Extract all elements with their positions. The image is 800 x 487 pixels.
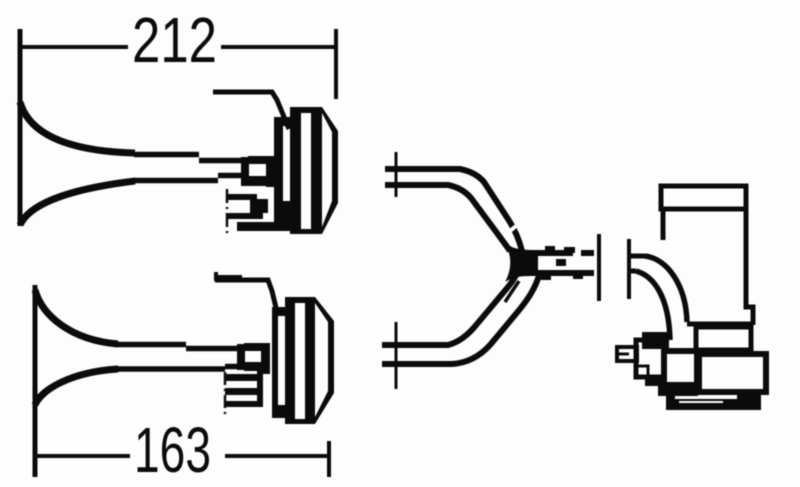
dimension 163 line left segment	[35, 454, 130, 458]
compressor cylinder left edge	[661, 209, 666, 240]
horn 2 throat adapter block	[237, 343, 270, 374]
horn 1 diaphragm housing front plate	[274, 117, 290, 230]
compressor elbow inner arc	[645, 256, 687, 322]
svg-text:212: 212	[132, 4, 217, 76]
hose upper branch sleeve break	[504, 226, 516, 236]
compressor elbow outer arc	[636, 271, 670, 340]
horn 2 diaphragm housing front plate	[272, 307, 286, 418]
compressor pump upper box	[696, 327, 751, 350]
dimension 212 extension line right	[334, 29, 338, 99]
compressor inlet flange line	[627, 239, 631, 299]
horn 2 air inlet nipple	[225, 370, 263, 407]
horn 1 bell bottom curve	[20, 181, 135, 225]
horn 1 mounting bracket	[213, 92, 289, 129]
dimension 163 line right segment	[225, 454, 329, 458]
horn 1 air inlet nipple	[227, 194, 295, 231]
compressor elbow stub bottom	[629, 269, 636, 274]
hose end flange line	[597, 234, 601, 301]
hose outlet clamp ticks	[541, 246, 583, 280]
dimension 163 extension line left / horn2 bell mouth edge	[33, 285, 38, 477]
hose upper branch top wall	[385, 169, 522, 251]
hose lower branch sleeve line	[505, 281, 519, 302]
compressor cylinder right edge	[746, 209, 753, 325]
horn 2 mounting bracket	[215, 272, 277, 312]
dimension 212 line left segment	[20, 45, 128, 49]
hose lower branch top wall	[382, 263, 521, 345]
horn 1 tube top edge	[134, 155, 243, 161]
dimension label 163	[134, 414, 211, 486]
compressor base plate	[666, 393, 761, 410]
horn 2 diaphragm disc	[285, 297, 315, 424]
horn 1 housing back shell	[322, 107, 338, 234]
hose lower branch cut tick	[395, 322, 398, 389]
horn 2 housing back shell	[315, 297, 334, 424]
hose outlet tube bottom wall	[530, 270, 594, 276]
dimension label 212	[132, 4, 217, 76]
hose upper branch bottom wall	[385, 185, 510, 251]
compressor elbow connector block	[664, 351, 697, 385]
dimension 212 extension line left / horn1 bell mouth edge	[18, 29, 23, 226]
hose outlet tube top wall	[530, 250, 594, 256]
compressor pump lower joint mass	[645, 377, 698, 396]
svg-text:163: 163	[134, 414, 211, 486]
dimension 163 extension line right	[327, 441, 331, 477]
horn 2 tube bottom edge	[115, 367, 239, 370]
compressor motor cap	[661, 186, 746, 209]
horn 2 bell bottom curve	[35, 369, 118, 405]
horn 1 bell top curve	[20, 102, 135, 153]
dimension 212 line right segment	[221, 45, 336, 49]
horn 1 throat adapter block	[241, 156, 275, 187]
horn 1 tube bottom edge	[134, 176, 243, 181]
hose lower branch bottom wall	[382, 272, 540, 364]
horn 2 bell top curve	[35, 290, 118, 344]
compressor elbow stub top	[629, 254, 645, 259]
horn 2 tube top edge	[115, 345, 241, 349]
hose upper branch cut tick	[395, 152, 398, 197]
hose junction crotch	[505, 243, 538, 282]
compressor electrical plug	[617, 347, 637, 361]
compressor bracket corner mass	[642, 332, 669, 349]
horn 1 diaphragm disc	[290, 107, 322, 234]
horn 2 inlet axis line	[224, 372, 227, 414]
compressor pump main body	[699, 354, 766, 392]
compressor left bracket	[636, 340, 664, 378]
horn 1 inlet axis line	[226, 189, 229, 237]
compressor pump top line	[687, 322, 753, 327]
